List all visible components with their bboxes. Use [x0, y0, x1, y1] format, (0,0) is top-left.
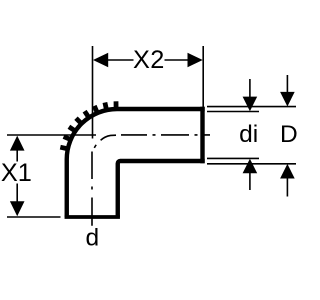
horizontal axis dash-dot — [121, 134, 210, 136]
svg-text:di: di — [239, 121, 258, 148]
extension line bottom (pipe end) — [7, 216, 61, 218]
svg-text:X1: X1 — [1, 159, 32, 187]
D arrowheads — [280, 92, 295, 107]
dimension line stems — [16, 150, 18, 162]
vertical axis dash-dot — [91, 152, 93, 226]
vertical pipe bottom end face — [65, 215, 120, 219]
svg-text:D: D — [280, 121, 298, 148]
serration ticks on outer bend — [60, 101, 116, 149]
X2 dimension — [93, 46, 204, 139]
inner top (di) — [207, 111, 259, 113]
D arrow stems — [286, 75, 288, 93]
pipe right end face — [200, 107, 204, 163]
extension line right (pipe end) — [202, 46, 204, 107]
svg-text:X2: X2 — [133, 46, 165, 74]
bend axis arc dash-dot — [94, 135, 116, 148]
inner bottom (di) — [207, 157, 259, 159]
dimension line — [105, 59, 134, 61]
svg-text:d: d — [85, 225, 99, 252]
X1 arrowheads — [10, 136, 25, 151]
extension line top (pipe axis) — [7, 134, 96, 136]
right end diameter extension lines — [207, 75, 296, 197]
inner edge (bottom of horizontal pipe + right wall of vertical pipe) — [118, 161, 205, 217]
X1 dimension — [7, 135, 96, 217]
outer top (D) — [207, 106, 296, 108]
X2 arrowheads — [93, 53, 108, 68]
di arrowheads — [243, 97, 258, 112]
di arrow stems — [249, 79, 251, 98]
center lines — [92, 135, 210, 226]
outer bottom (D) — [207, 163, 296, 165]
extension line left (pipe axis) — [92, 46, 94, 139]
elbow outer silhouette (left wall + outer bend arc + top edge) — [67, 109, 205, 217]
